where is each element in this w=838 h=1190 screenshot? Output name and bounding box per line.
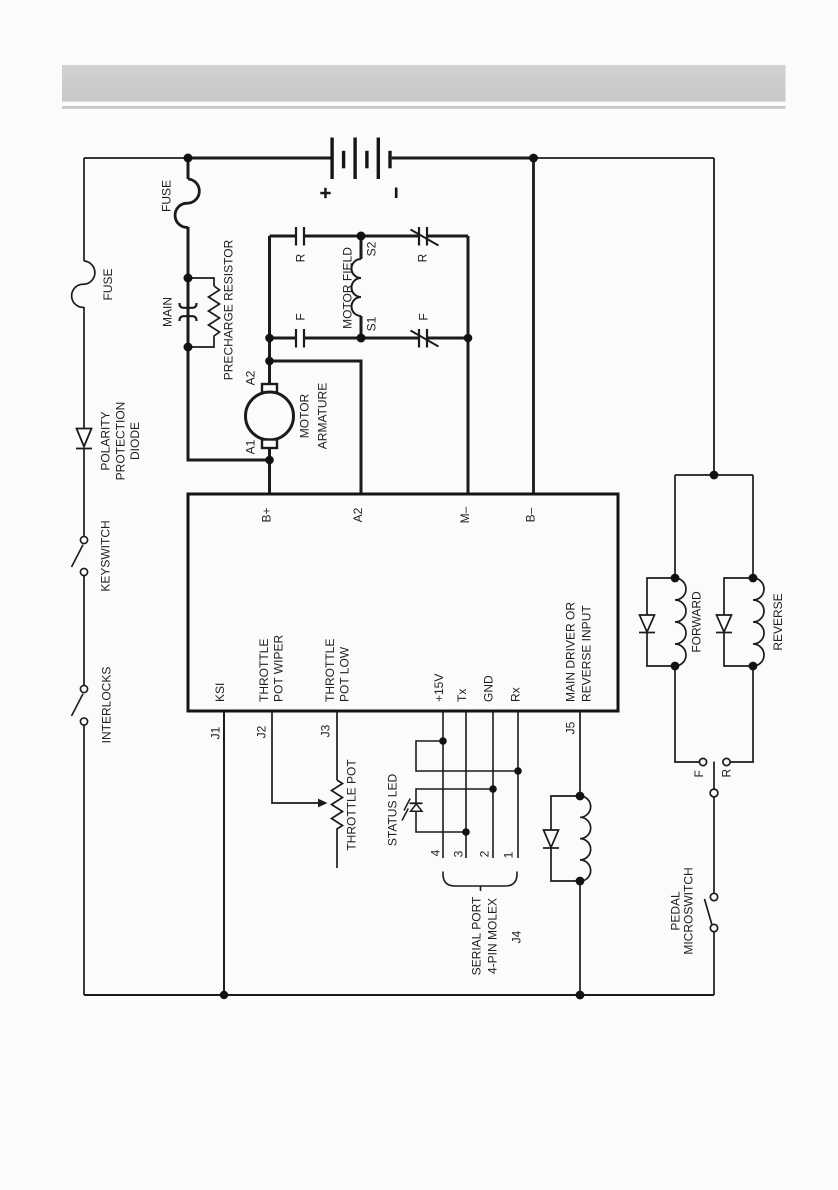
svg-text:MAIN DRIVER OR: MAIN DRIVER OR xyxy=(564,602,578,702)
wire: J5 to bottom bus xyxy=(579,881,581,995)
svg-text:POT WIPER: POT WIPER xyxy=(272,635,286,702)
svg-text:KSI: KSI xyxy=(213,683,227,702)
wire: bottom bus xyxy=(84,994,714,996)
svg-text:FUSE: FUSE xyxy=(160,180,174,212)
node: +15V tap xyxy=(439,737,447,745)
wire: left rail segments xyxy=(83,158,85,261)
node: top bus / main branch xyxy=(184,154,193,163)
svg-text:Tx: Tx xyxy=(455,689,469,702)
svg-text:THROTTLE: THROTTLE xyxy=(323,639,337,702)
status LED xyxy=(411,804,422,811)
svg-text:J4: J4 xyxy=(510,930,524,943)
diode D2 (reverse) xyxy=(717,615,732,632)
svg-text:R: R xyxy=(416,253,430,262)
node: pin2 tap xyxy=(489,785,497,793)
node A1 xyxy=(265,456,274,465)
wire: forward to F contact xyxy=(675,666,699,762)
svg-text:POT LOW: POT LOW xyxy=(338,646,352,702)
svg-text:THROTTLE: THROTTLE xyxy=(257,639,271,702)
reverse diode branch xyxy=(724,578,753,666)
contact R NC (bridge top right) xyxy=(419,227,427,246)
svg-text:F: F xyxy=(692,770,706,777)
throttle pot zigzag xyxy=(332,780,343,868)
polarity protection diode xyxy=(77,429,92,447)
svg-text:J3: J3 xyxy=(319,724,333,737)
wire: J3 pot low xyxy=(336,711,338,780)
svg-text:INTERLOCKS: INTERLOCKS xyxy=(100,667,114,744)
forward diode branch xyxy=(647,578,675,666)
interlocks switch xyxy=(80,685,87,692)
node: top bus / B- xyxy=(529,154,538,163)
FR selector contacts xyxy=(699,758,706,765)
wire: top bus battery right to corner xyxy=(392,157,534,160)
svg-text:R: R xyxy=(294,253,308,262)
motor armature xyxy=(262,384,277,393)
wire: A2 drop xyxy=(270,361,362,494)
wire: reverse branch top xyxy=(752,475,754,578)
controller box U1 xyxy=(188,494,618,711)
wire: top bus left thin segment xyxy=(84,157,188,159)
svg-text:S2: S2 xyxy=(365,241,379,256)
svg-text:M–: M– xyxy=(458,506,472,523)
wire: pedal switch to bottom bus xyxy=(713,932,715,995)
J5 coil diode branch xyxy=(551,796,580,881)
svg-text:MICROSWITCH: MICROSWITCH xyxy=(682,867,696,954)
svg-text:J1: J1 xyxy=(209,726,223,739)
wire: armature column xyxy=(268,338,271,384)
svg-text:J2: J2 xyxy=(255,725,269,738)
svg-text:2: 2 xyxy=(478,850,492,857)
wire: main contactor branch xyxy=(187,158,190,179)
node S2 xyxy=(357,232,366,241)
node: reverse coil top xyxy=(749,574,758,583)
svg-text:F: F xyxy=(417,313,431,320)
precharge resistor zigzag xyxy=(209,286,220,340)
contact F (bridge bottom left) xyxy=(296,329,304,348)
node S1 xyxy=(357,334,366,343)
keyswitch xyxy=(80,536,87,543)
node: J5 coil bottom xyxy=(576,877,585,886)
node: reverse coil bottom xyxy=(749,662,758,671)
node: pin1 tap xyxy=(514,767,522,775)
wire: J2 wiper with arrow xyxy=(272,711,319,803)
wire: FR feed horizontal xyxy=(675,474,753,476)
node: bridge bottom right xyxy=(464,334,473,343)
wire: precharge branch xyxy=(188,278,214,286)
motor field coil xyxy=(352,259,362,316)
battery B+ xyxy=(330,138,397,199)
svg-text:STATUS LED: STATUS LED xyxy=(386,774,400,847)
wire: bridge bottom xyxy=(270,337,297,340)
fuse F2 (main branch) xyxy=(175,179,199,227)
wire: right main vertical xyxy=(713,158,715,475)
svg-text:B–: B– xyxy=(524,507,538,522)
diode D1 (forward) xyxy=(640,615,655,632)
wire: bridge left vertical xyxy=(268,236,271,338)
wire: J5 drop xyxy=(579,711,581,796)
svg-text:POLARITY: POLARITY xyxy=(99,411,113,470)
header gray bar xyxy=(62,65,786,102)
wire: forward branch top xyxy=(674,475,676,578)
svg-text:3: 3 xyxy=(452,850,466,857)
svg-text:1: 1 xyxy=(502,851,516,858)
svg-text:Rx: Rx xyxy=(509,687,523,702)
wire: bridge top xyxy=(270,235,297,238)
status led net upper xyxy=(416,741,518,771)
contact R (bridge top left) xyxy=(296,227,304,246)
node: pin3 tap xyxy=(462,828,470,836)
wire: bridge right vertical / M- drop xyxy=(467,236,470,494)
J5 coil xyxy=(580,796,591,881)
node: main / precharge top xyxy=(184,274,193,283)
svg-text:A1: A1 xyxy=(244,439,258,454)
diode D3 (J5) xyxy=(544,830,559,848)
serial wires pins 4..1 xyxy=(442,711,444,858)
svg-text:4: 4 xyxy=(429,849,443,856)
wire: field stubs xyxy=(360,236,363,259)
wire: reverse to R contact xyxy=(730,666,753,762)
forward coil xyxy=(675,578,686,666)
wire: B- drop xyxy=(532,158,535,494)
main contactor tips xyxy=(180,303,197,308)
svg-text:DIODE: DIODE xyxy=(128,422,142,460)
svg-text:REVERSE: REVERSE xyxy=(771,593,785,650)
node: forward coil top xyxy=(671,574,680,583)
svg-text:GND: GND xyxy=(482,675,496,702)
svg-text:MOTOR FIELD: MOTOR FIELD xyxy=(341,247,355,329)
svg-text:A2: A2 xyxy=(351,507,365,522)
svg-text:ARMATURE: ARMATURE xyxy=(316,383,330,449)
svg-text:F: F xyxy=(294,313,308,320)
svg-text:PEDAL: PEDAL xyxy=(669,891,683,931)
contact F NC (bridge bottom right) xyxy=(419,329,427,348)
svg-text:SERIAL PORT: SERIAL PORT xyxy=(470,896,484,975)
svg-text:MAIN: MAIN xyxy=(161,297,175,327)
node: J5 / bottom bus xyxy=(576,991,585,1000)
J4 bracket xyxy=(443,872,517,892)
svg-text:THROTTLE POT: THROTTLE POT xyxy=(345,759,359,851)
node: bridge bottom left xyxy=(265,334,274,343)
svg-text:PROTECTION: PROTECTION xyxy=(114,402,128,481)
svg-text:J5: J5 xyxy=(564,721,578,734)
svg-text:MOTOR: MOTOR xyxy=(298,393,312,438)
node: J5 coil top xyxy=(576,792,585,801)
svg-text:A2: A2 xyxy=(244,370,258,385)
fuse F1 (left rail) xyxy=(72,261,95,307)
wire: selector to pedal switch xyxy=(713,797,715,893)
svg-text:KEYSWITCH: KEYSWITCH xyxy=(99,520,113,591)
svg-text:S1: S1 xyxy=(365,316,379,331)
node: A2 tap xyxy=(265,357,274,366)
svg-text:REVERSE INPUT: REVERSE INPUT xyxy=(580,605,594,702)
svg-text:FORWARD: FORWARD xyxy=(690,591,704,653)
node: FR feed xyxy=(710,471,719,480)
svg-text:R: R xyxy=(720,769,734,778)
status led net lower xyxy=(416,789,493,832)
label battery + xyxy=(320,188,330,198)
wire: KSI J1 xyxy=(223,711,225,995)
svg-text:4-PIN MOLEX: 4-PIN MOLEX xyxy=(486,898,500,974)
node: J1 / bottom bus xyxy=(220,991,228,999)
svg-text:B+: B+ xyxy=(260,507,274,522)
node: forward coil bottom xyxy=(671,662,680,671)
svg-text:+15V: +15V xyxy=(432,674,446,702)
svg-text:PRECHARGE RESISTOR: PRECHARGE RESISTOR xyxy=(222,239,236,380)
reverse coil xyxy=(753,578,764,666)
node: main / precharge bottom xyxy=(184,343,193,352)
svg-text:FUSE: FUSE xyxy=(101,268,115,300)
pedal microswitch xyxy=(710,893,717,900)
wire: top bus battery left xyxy=(188,157,331,160)
arrowhead of J2 wiper xyxy=(318,799,328,808)
